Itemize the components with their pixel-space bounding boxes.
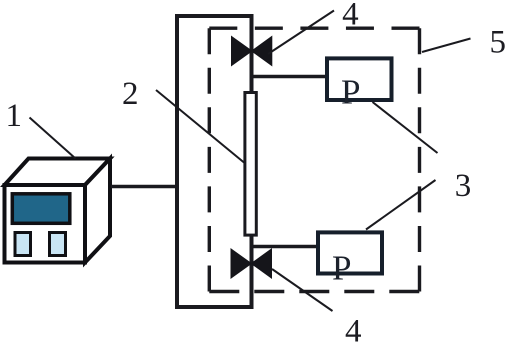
leader line label 1 [30, 118, 76, 159]
svg-text:4: 4 [342, 0, 359, 33]
valve 4 bottom left triangle [231, 249, 251, 278]
device screen [12, 194, 70, 224]
dashed enclosure 5 right side [418, 28, 421, 291]
leader line label 4 bottom [272, 269, 333, 311]
device U1 front face [5, 185, 86, 263]
leader line label 4 top [268, 11, 334, 55]
svg-text:2: 2 [122, 76, 139, 112]
svg-text:P: P [341, 73, 360, 112]
svg-text:3: 3 [455, 168, 472, 204]
dashed enclosure 5 left side [208, 28, 211, 291]
pressure sensor P top box [327, 58, 392, 100]
svg-text:1: 1 [6, 98, 23, 134]
device U1 top face [5, 159, 111, 186]
wire device to column [111, 185, 179, 189]
leader line label 3 to bottom sensor [366, 180, 436, 230]
leader line label 5 [422, 39, 471, 53]
leader line label 3 from top sensor [373, 102, 438, 153]
dashed enclosure 5 top side [209, 27, 419, 30]
sample tube 2 [245, 93, 256, 236]
wire valve to sensor P top [252, 75, 328, 79]
svg-text:P: P [332, 249, 351, 288]
pressure sensor P bottom box [318, 232, 382, 273]
leader line label 2 [156, 90, 244, 163]
wire valve to sensor P bottom [251, 245, 318, 249]
valve 4 bottom right triangle [251, 249, 271, 278]
dashed enclosure 5 bottom side [209, 290, 419, 293]
valve 4 top left triangle [232, 37, 252, 66]
valve 4 top right triangle [252, 37, 272, 66]
svg-text:4: 4 [345, 313, 362, 343]
svg-text:5: 5 [490, 24, 507, 60]
device U1 right face [85, 159, 110, 263]
column (vessel) [177, 16, 252, 307]
device button left [15, 233, 31, 256]
device button right [50, 233, 66, 256]
